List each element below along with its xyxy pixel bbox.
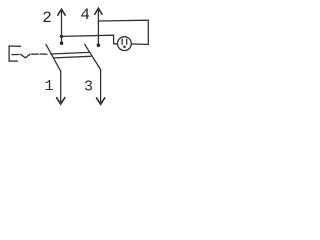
wire: top from terminal 4 to right side bbox=[98, 19, 148, 22]
terminal 2 arrow (up) bbox=[58, 9, 65, 43]
lamp E1 gas dot bbox=[123, 45, 126, 48]
node: fixed contact of pole 1 (terminal 2) bbox=[60, 41, 64, 45]
wire: right vertical down to lamp bbox=[147, 20, 149, 44]
terminal 4 arrow (up) bbox=[95, 8, 102, 45]
node: fixed contact of pole 2 (terminal 4) bbox=[97, 43, 101, 47]
switch blade pole 2 (open, tip left of contact) bbox=[85, 44, 101, 69]
svg-text:2: 2 bbox=[42, 9, 52, 27]
mechanical linkage dash 1 bbox=[12, 54, 19, 56]
mechanical coupling bar lower bbox=[54, 56, 90, 58]
terminal 3 arrow (down) bbox=[97, 98, 105, 104]
mechanical linkage dash 3 bbox=[40, 53, 47, 55]
svg-text:4: 4 bbox=[80, 6, 90, 24]
terminal 3 lead bbox=[100, 70, 102, 104]
mechanical linkage dash 2 bbox=[32, 53, 39, 55]
lamp E1 (neon) body bbox=[118, 37, 132, 51]
wire: lamp left lead to terminal 2 junction bbox=[62, 35, 118, 44]
wire: lamp right lead bbox=[131, 43, 148, 45]
terminal 1 arrow (down) bbox=[57, 98, 65, 104]
lamp E1 electrode right bbox=[126, 39, 128, 44]
switch blade pole 1 (open, tip left of contact) bbox=[46, 44, 61, 71]
node: junction of terminal 2 line and lamp wire bbox=[60, 35, 63, 38]
mechanical coupling bar upper bbox=[51, 52, 90, 54]
mechanical linkage latch notch bbox=[21, 54, 30, 58]
manual actuator bracket bbox=[9, 46, 20, 61]
svg-text:1: 1 bbox=[45, 78, 54, 95]
lamp E1 electrode left bbox=[121, 39, 123, 44]
terminal 1 lead bbox=[60, 71, 62, 103]
svg-text:3: 3 bbox=[84, 79, 93, 96]
